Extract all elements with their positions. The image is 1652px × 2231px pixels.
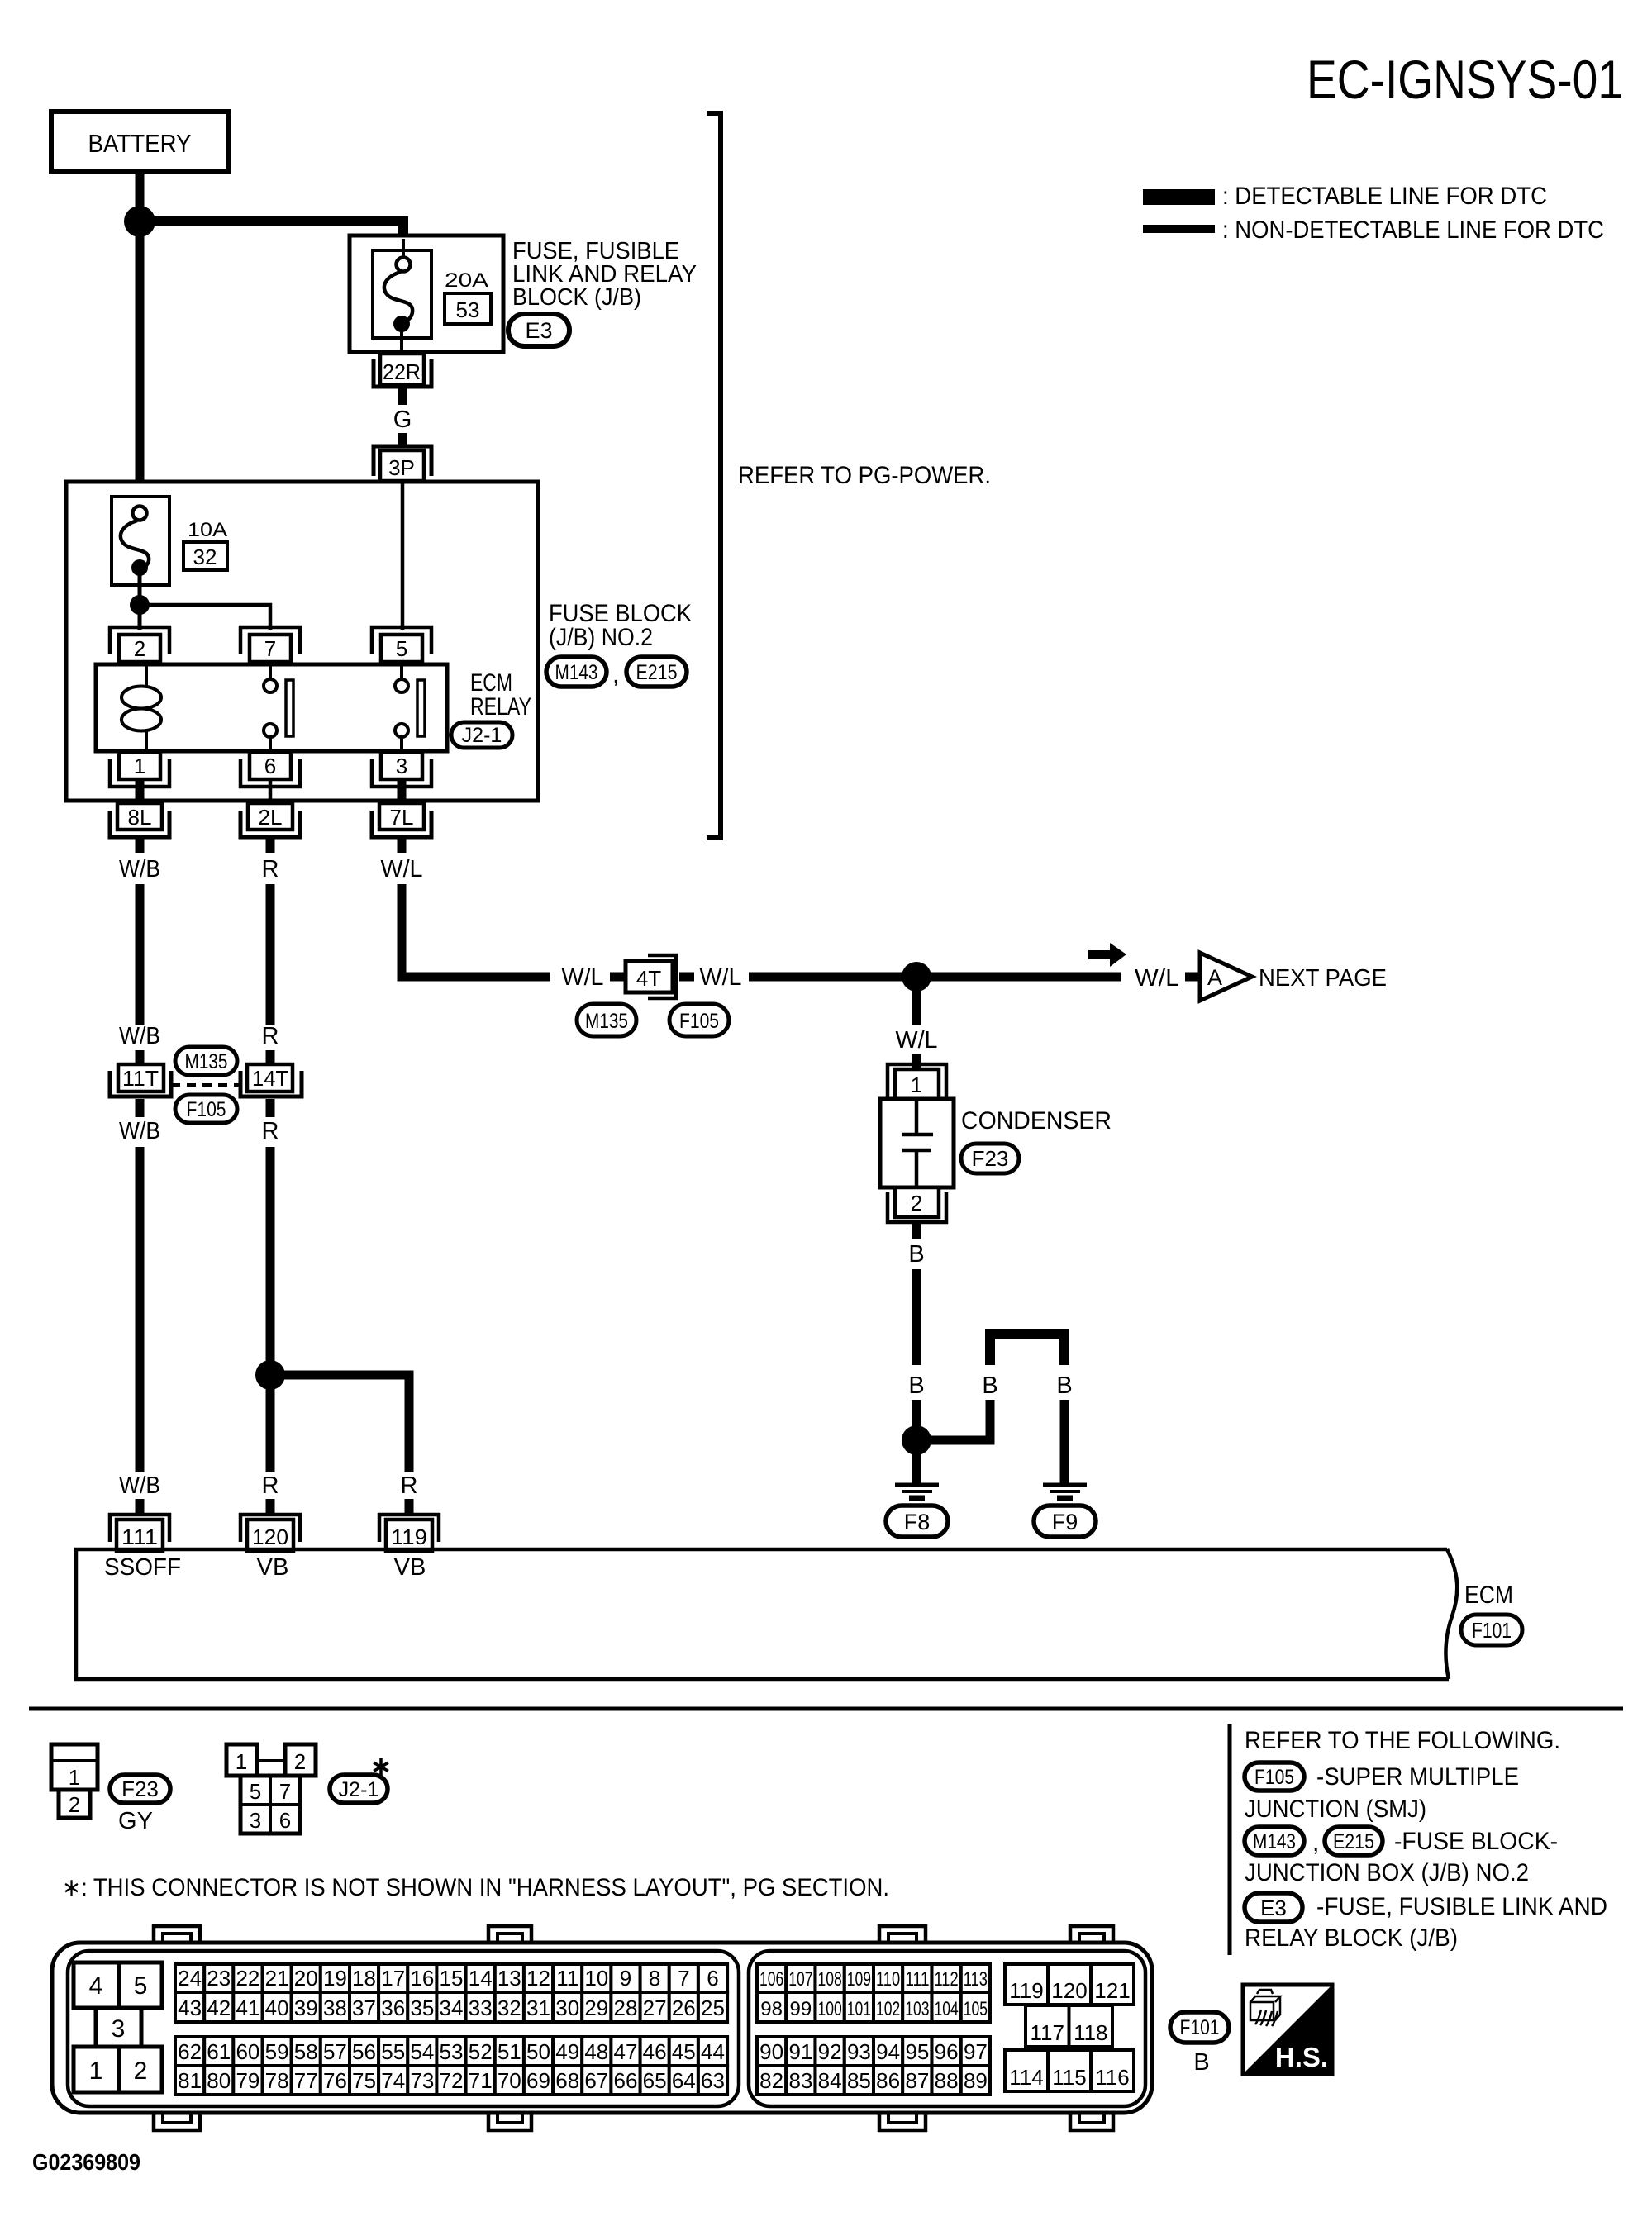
ECM pin name SSOFF	[104, 1554, 181, 1581]
svg-text:W/L: W/L	[562, 964, 604, 991]
svg-text:1: 1	[134, 754, 145, 778]
ECM box	[76, 1549, 1457, 1679]
ECM connector pin row 43-25	[175, 1992, 727, 2022]
svg-text:5: 5	[250, 1779, 261, 1804]
svg-text:E215: E215	[1333, 1830, 1374, 1853]
svg-text:4: 4	[89, 1972, 103, 2000]
svg-text:100: 100	[817, 1998, 841, 2020]
svg-text:6: 6	[264, 754, 276, 778]
svg-text:50: 50	[526, 2039, 550, 2064]
svg-text:52: 52	[469, 2039, 493, 2064]
ECM connector housing	[52, 1943, 1152, 2113]
ECM connector pin row 82-89	[757, 2066, 990, 2095]
svg-text:7: 7	[264, 636, 276, 661]
relay pin 5	[372, 627, 431, 662]
fuse block (J/B) No.2 box	[66, 482, 538, 801]
label ECM	[1464, 1582, 1513, 1609]
svg-text:1: 1	[69, 1765, 80, 1790]
wire color label W/B above 11T	[119, 1023, 160, 1049]
label FUSE BLOCK dash	[1394, 1828, 1558, 1855]
label RELAY BLOCK (J/B)	[1245, 1924, 1458, 1952]
wire color label W/B above 111	[119, 1472, 160, 1499]
wire into 11T	[136, 1050, 145, 1068]
wire color label B below condenser	[908, 1241, 924, 1268]
ECM connector pin row 114-116	[1005, 2050, 1134, 2091]
label FUSE BLOCK (J/B) NO.2	[549, 600, 692, 651]
wire color label R above 119	[401, 1472, 418, 1499]
wire branch fuse to relay pin 7	[140, 605, 270, 630]
ECM connector pin row 106-113	[757, 1964, 990, 1992]
svg-text:NEXT PAGE: NEXT PAGE	[1259, 965, 1387, 992]
ECM connector pin row 90-97	[757, 2037, 990, 2066]
wire 22R to 3P stub	[398, 388, 407, 405]
svg-text:54: 54	[410, 2039, 434, 2064]
wire stub out of 4T	[679, 973, 694, 982]
svg-text:112: 112	[934, 1968, 958, 1991]
svg-text:1: 1	[236, 1749, 247, 1774]
svg-text:118: 118	[1074, 2020, 1107, 2045]
svg-text:120: 120	[1051, 1978, 1087, 2003]
svg-text:81: 81	[178, 2068, 202, 2093]
fuse 10A symbol	[112, 497, 169, 598]
ECM terminal 120	[240, 1515, 300, 1551]
connector terminal 3P	[374, 446, 431, 481]
svg-text:111: 111	[905, 1968, 929, 1991]
svg-text:84: 84	[818, 2068, 842, 2093]
svg-text:E215: E215	[636, 661, 678, 684]
svg-text:59: 59	[265, 2039, 289, 2064]
svg-text:JUNCTION BOX (J/B) NO.2: JUNCTION BOX (J/B) NO.2	[1245, 1859, 1529, 1886]
connector terminal 11T	[110, 1064, 171, 1096]
wire pin6 to 2L	[269, 779, 273, 805]
wire junction to F8 ground	[912, 1453, 921, 1484]
svg-text:79: 79	[236, 2068, 259, 2093]
label REFER TO THE FOLLOWING	[1245, 1727, 1560, 1754]
wire color label W/L above condenser	[896, 1027, 938, 1054]
wire into terminal 119	[405, 1499, 414, 1516]
svg-text:25: 25	[701, 1996, 725, 2020]
svg-text:28: 28	[614, 1996, 638, 2020]
connector housing tab (bottom)	[488, 2111, 531, 2130]
svg-text:73: 73	[410, 2068, 434, 2093]
svg-text:57: 57	[323, 2039, 347, 2064]
ECM connector pin row 62-44	[175, 2037, 727, 2066]
svg-text:106: 106	[759, 1968, 783, 1991]
svg-text:B: B	[908, 1241, 924, 1268]
svg-text:101: 101	[847, 1998, 871, 2020]
svg-text:6: 6	[279, 1808, 291, 1833]
svg-text:107: 107	[788, 1968, 812, 1991]
comma	[1312, 1829, 1319, 1857]
ECM connector pin row 119-121	[1005, 1964, 1134, 2005]
wire stub below 8L	[136, 837, 145, 853]
svg-text:77: 77	[294, 2068, 318, 2093]
wire junction to condenser	[912, 990, 921, 1025]
svg-text:F101: F101	[1472, 1618, 1512, 1643]
svg-text:41: 41	[236, 1996, 259, 2020]
connector label F23	[961, 1144, 1019, 1173]
svg-text:13: 13	[498, 1966, 521, 1991]
relay contact 5-3	[395, 664, 425, 751]
wire W/L run down and right	[402, 884, 550, 977]
wire stub below condenser	[912, 1222, 921, 1239]
svg-text:105: 105	[964, 1998, 988, 2020]
svg-text:42: 42	[207, 1996, 231, 2020]
wire W/L label on bus (left)	[562, 964, 604, 991]
wire into terminal 120	[266, 1499, 275, 1516]
svg-text:F9: F9	[1052, 1510, 1078, 1534]
svg-text:104: 104	[934, 1998, 958, 2020]
value label 20A	[445, 269, 488, 292]
wire B into junction	[912, 1400, 921, 1429]
svg-text:33: 33	[469, 1996, 493, 2020]
svg-text:,: ,	[612, 661, 619, 688]
svg-text:REFER TO THE FOLLOWING.: REFER TO THE FOLLOWING.	[1245, 1727, 1560, 1754]
connector housing tab (bottom)	[154, 2111, 200, 2130]
wire stub below 2L	[266, 837, 275, 853]
svg-text:76: 76	[323, 2068, 347, 2093]
svg-text:121: 121	[1094, 1978, 1130, 2003]
wire color label W/B	[119, 856, 160, 882]
connector housing tab (top)	[1070, 1926, 1113, 1944]
svg-text:9: 9	[620, 1966, 631, 1991]
wire color label G	[393, 407, 412, 433]
dashed SMJ link 11T-14T	[171, 1083, 240, 1087]
svg-text:58: 58	[294, 2039, 318, 2064]
wire W/L label before next page	[1135, 965, 1179, 992]
svg-text:G: G	[393, 407, 412, 433]
svg-text:W/L: W/L	[381, 856, 423, 882]
connector label F105 under 4T	[669, 1004, 729, 1036]
comma after M143	[612, 661, 619, 688]
svg-text:66: 66	[614, 2068, 638, 2093]
ECM terminal 119	[379, 1515, 439, 1551]
svg-text:10A: 10A	[188, 519, 227, 541]
svg-text:109: 109	[847, 1968, 871, 1991]
svg-text:88: 88	[935, 2068, 959, 2093]
svg-text:2: 2	[69, 1792, 80, 1817]
svg-text:3: 3	[112, 2015, 126, 2043]
svg-text:93: 93	[847, 2039, 871, 2064]
svg-text:46: 46	[643, 2039, 667, 2064]
svg-text:30: 30	[555, 1996, 579, 2020]
wire loop over	[990, 1334, 1064, 1365]
svg-text:R: R	[262, 1023, 279, 1049]
svg-text:W/B: W/B	[119, 1118, 160, 1144]
wire 3P to relay pin 5	[401, 481, 405, 630]
svg-text:W/B: W/B	[119, 856, 160, 882]
relay pin 6	[240, 752, 300, 787]
wire color label R above 120	[262, 1472, 279, 1499]
svg-text:40: 40	[265, 1996, 289, 2020]
wire W/L bus to junction	[749, 973, 902, 982]
legend detectable line sample	[1143, 183, 1547, 210]
svg-text:119: 119	[391, 1525, 427, 1549]
svg-text:110: 110	[876, 1968, 900, 1991]
svg-text:RELAY BLOCK (J/B): RELAY BLOCK (J/B)	[1245, 1924, 1458, 1952]
svg-text:78: 78	[265, 2068, 289, 2093]
svg-text:7: 7	[678, 1966, 689, 1991]
svg-text:34: 34	[440, 1996, 464, 2020]
connector housing tab (top)	[488, 1926, 531, 1944]
svg-text:JUNCTION (SMJ): JUNCTION (SMJ)	[1245, 1796, 1426, 1823]
wire color label R below 14T	[262, 1118, 279, 1144]
svg-text:99: 99	[790, 1998, 812, 2020]
wire stub below 11T	[136, 1099, 145, 1117]
wire B to F9 ground	[1060, 1400, 1069, 1484]
svg-text:∗: THIS CONNECTOR IS NOT SHOWN: ∗: THIS CONNECTOR IS NOT SHOWN IN "HARNE…	[62, 1874, 889, 1901]
svg-text:-FUSE, FUSIBLE LINK AND: -FUSE, FUSIBLE LINK AND	[1316, 1893, 1607, 1920]
ground symbol F9	[1043, 1485, 1087, 1498]
svg-text:E3: E3	[525, 318, 552, 343]
connector key cell 3	[96, 2008, 141, 2047]
svg-text:F23: F23	[121, 1777, 159, 1801]
svg-text:VB: VB	[394, 1554, 426, 1581]
svg-text:2L: 2L	[259, 805, 283, 830]
node ground junction	[902, 1425, 931, 1455]
connector terminal 2L	[240, 803, 300, 837]
label REFER TO PG-POWER	[738, 462, 991, 489]
svg-text:M143: M143	[1253, 1830, 1296, 1853]
svg-text:29: 29	[584, 1996, 608, 2020]
svg-text:51: 51	[498, 2039, 521, 2064]
svg-text:20A: 20A	[445, 269, 488, 292]
svg-text:27: 27	[643, 1996, 667, 2020]
relay contact 7-6	[264, 664, 293, 751]
ECM connector pin row 81-63	[175, 2066, 727, 2095]
svg-text:2: 2	[134, 2057, 148, 2085]
fuse number 32	[183, 542, 227, 570]
ECM connector pin row 117-118	[1026, 2005, 1112, 2047]
svg-text:96: 96	[935, 2039, 959, 2064]
relay pin 7	[240, 627, 300, 662]
relay coil	[121, 665, 161, 750]
title EC-IGNSYS-01	[1307, 49, 1623, 110]
label CONDENSER	[961, 1107, 1112, 1135]
connector label F23 (footer)	[110, 1775, 170, 1803]
wire W/B to ECM	[136, 1147, 145, 1472]
svg-text:(J/B) NO.2: (J/B) NO.2	[549, 624, 653, 651]
svg-text:60: 60	[236, 2039, 259, 2064]
svg-text:3P: 3P	[388, 455, 415, 480]
connector label J2-1 (footer)	[330, 1775, 388, 1803]
svg-text:M135: M135	[185, 1050, 228, 1073]
wire R to junction	[266, 1147, 275, 1362]
wire junction branch right	[927, 1400, 990, 1440]
svg-text:,: ,	[1312, 1829, 1319, 1857]
wire battery to 20A fuse	[140, 221, 403, 239]
wire R run down	[266, 884, 275, 1025]
wire B run	[912, 1269, 921, 1365]
svg-text:3: 3	[396, 754, 407, 778]
svg-text:14T: 14T	[252, 1066, 288, 1091]
ECM connector pin row 24-6	[175, 1964, 727, 1992]
svg-text:7: 7	[279, 1779, 291, 1804]
svg-text:E3: E3	[1260, 1896, 1287, 1920]
svg-text:39: 39	[294, 1996, 318, 2020]
svg-text:-FUSE BLOCK-: -FUSE BLOCK-	[1394, 1828, 1558, 1855]
svg-text:REFER TO PG-POWER.: REFER TO PG-POWER.	[738, 462, 991, 489]
svg-text:4T: 4T	[636, 966, 661, 991]
wire W/B run down	[136, 884, 145, 1025]
refer-to-following divider	[1228, 1724, 1232, 1955]
svg-text:R: R	[401, 1472, 418, 1499]
svg-text:72: 72	[440, 2068, 464, 2093]
svg-text:A: A	[1207, 965, 1222, 990]
label JUNCTION (SMJ)	[1245, 1796, 1426, 1823]
svg-text:119: 119	[1009, 1978, 1043, 2003]
label FUSE FUSIBLE LINK AND	[1316, 1893, 1607, 1920]
svg-text:ECM: ECM	[1464, 1582, 1513, 1609]
svg-text:35: 35	[410, 1996, 434, 2020]
node below 10A fuse	[130, 595, 150, 615]
svg-text:R: R	[262, 856, 279, 882]
svg-text:68: 68	[555, 2068, 579, 2093]
ground connector label F9	[1034, 1506, 1096, 1537]
svg-text:80: 80	[207, 2068, 231, 2093]
connector terminal 22R	[374, 354, 431, 387]
svg-text:F23: F23	[972, 1146, 1009, 1171]
svg-text:M143: M143	[555, 661, 598, 684]
svg-text:95: 95	[905, 2039, 929, 2064]
direction arrow	[1088, 943, 1126, 967]
svg-text:91: 91	[788, 2039, 812, 2064]
svg-text:47: 47	[614, 2039, 638, 2064]
connector housing tab (bottom)	[879, 2111, 926, 2130]
relay pin 1	[110, 752, 169, 787]
svg-text:W/L: W/L	[700, 964, 742, 991]
wire color label B above F8 junction	[908, 1372, 924, 1399]
wire R branch to 119	[281, 1375, 409, 1472]
svg-text:B: B	[1056, 1372, 1072, 1399]
svg-text:69: 69	[526, 2068, 550, 2093]
svg-text:108: 108	[817, 1968, 841, 1991]
connector label M135	[175, 1047, 237, 1075]
svg-text:53: 53	[456, 297, 480, 322]
svg-text:R: R	[262, 1472, 279, 1499]
svg-text:74: 74	[381, 2068, 405, 2093]
svg-text:87: 87	[905, 2068, 929, 2093]
connector key cells 1 2	[74, 2047, 162, 2092]
svg-text:43: 43	[178, 1996, 202, 2020]
svg-text:75: 75	[352, 2068, 376, 2093]
fuse fusible link and relay block E3 box	[350, 235, 503, 352]
svg-text:23: 23	[207, 1966, 231, 1991]
wire R junction to 120	[266, 1388, 275, 1472]
svg-text:53: 53	[440, 2039, 464, 2064]
svg-text:W/L: W/L	[1135, 965, 1179, 992]
svg-text:7L: 7L	[390, 805, 414, 830]
svg-text:16: 16	[410, 1966, 434, 1991]
wire color label R above 14T	[262, 1023, 279, 1049]
fuse number 53	[445, 293, 491, 324]
svg-text:3: 3	[250, 1808, 261, 1833]
ground connector label F8	[886, 1506, 948, 1537]
svg-text:10: 10	[584, 1966, 608, 1991]
connector terminal 7L	[372, 803, 431, 837]
connector housing tab (bottom)	[1070, 2111, 1113, 2130]
svg-text:F105: F105	[187, 1098, 226, 1121]
svg-text:21: 21	[265, 1966, 289, 1991]
wire pin1 to 8L	[136, 781, 145, 805]
svg-text:1: 1	[89, 2057, 103, 2085]
svg-text:6: 6	[707, 1966, 718, 1991]
svg-text:17: 17	[381, 1966, 405, 1991]
svg-text:82: 82	[759, 2068, 783, 2093]
svg-text:116: 116	[1095, 2065, 1129, 2090]
svg-text:B: B	[982, 1372, 997, 1399]
svg-text:49: 49	[555, 2039, 579, 2064]
connector label E3 (refer)	[1245, 1893, 1302, 1922]
fuse 20A (fusible link symbol)	[373, 239, 431, 352]
svg-text:15: 15	[440, 1966, 464, 1991]
bracket refer to PG-POWER	[707, 113, 721, 838]
svg-text:56: 56	[352, 2039, 376, 2064]
color label GY	[118, 1808, 153, 1834]
connector label F101 (footer)	[1170, 2012, 1229, 2043]
svg-text:111: 111	[121, 1525, 158, 1549]
svg-text:: NON-DETECTABLE LINE FOR DTC: : NON-DETECTABLE LINE FOR DTC	[1222, 216, 1604, 244]
svg-text:GY: GY	[118, 1808, 153, 1834]
connector label E215	[626, 657, 687, 687]
connector terminal 14T	[240, 1064, 302, 1096]
connector key cells 4 5	[74, 1962, 162, 2008]
svg-text:1: 1	[911, 1073, 922, 1097]
label FUSE, FUSIBLE LINK AND RELAY BLOCK (J/B)	[512, 238, 697, 311]
wire stub into 4T	[610, 973, 626, 982]
svg-text:32: 32	[498, 1996, 521, 2020]
svg-text:70: 70	[498, 2068, 521, 2093]
svg-text:F105: F105	[1254, 1766, 1294, 1789]
svg-text:36: 36	[381, 1996, 405, 2020]
color label B (footer)	[1193, 2049, 1209, 2076]
label ECM RELAY	[470, 669, 531, 721]
svg-text:90: 90	[759, 2039, 783, 2064]
connector label F105 (refer)	[1245, 1762, 1304, 1791]
svg-text:89: 89	[964, 2068, 988, 2093]
svg-text:J2-1: J2-1	[462, 724, 502, 747]
relay pin 3	[372, 752, 431, 787]
legend non-detectable line sample	[1143, 216, 1604, 244]
connector label M143	[546, 657, 607, 687]
svg-text:113: 113	[964, 1968, 988, 1991]
battery	[51, 112, 229, 171]
svg-text:5: 5	[396, 636, 407, 661]
ground symbol F8	[895, 1485, 939, 1498]
svg-text:BATTERY: BATTERY	[88, 129, 192, 158]
svg-text:45: 45	[672, 2039, 696, 2064]
condenser body	[880, 1099, 954, 1187]
svg-text:71: 71	[469, 2068, 493, 2093]
svg-text:SSOFF: SSOFF	[104, 1554, 181, 1581]
svg-text:22R: 22R	[383, 359, 421, 384]
connector label F101	[1461, 1615, 1522, 1645]
svg-text:B: B	[1193, 2049, 1209, 2076]
wire into condenser pin 1	[912, 1054, 921, 1069]
connector J2-1 face	[226, 1744, 316, 1834]
svg-text:M135: M135	[585, 1010, 628, 1033]
ECM pin name VB (119)	[394, 1554, 426, 1581]
connector F23 face (condenser)	[51, 1744, 98, 1818]
label NEXT PAGE	[1259, 965, 1387, 992]
svg-text:44: 44	[701, 2039, 725, 2064]
connector label E3	[508, 314, 569, 346]
svg-text:38: 38	[323, 1996, 347, 2020]
wire color label W/B below 11T	[119, 1118, 160, 1144]
svg-text:20: 20	[294, 1966, 318, 1991]
svg-text:H.S.: H.S.	[1275, 2042, 1328, 2072]
wire pin3 to 7L	[398, 781, 407, 805]
